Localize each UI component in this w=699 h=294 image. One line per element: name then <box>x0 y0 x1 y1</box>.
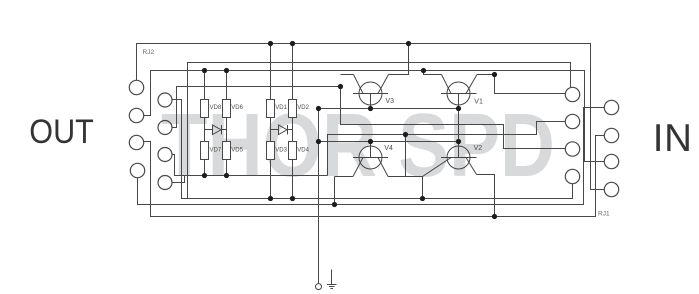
wire base bus lower <box>319 141 459 143</box>
svg-text:V1: V1 <box>474 99 483 106</box>
svg-text:THOR SPD: THOR SPD <box>161 96 555 196</box>
svg-text:VD6: VD6 <box>231 105 243 111</box>
wire bottom bus 1 <box>172 100 573 199</box>
wire bottom bus 2 <box>138 108 605 205</box>
RJ2 pin circle A1 <box>129 80 143 94</box>
ground <box>327 270 337 289</box>
transistor V1 <box>424 71 495 158</box>
wire RJ2 pin8 stub <box>172 176 185 183</box>
node H14 V2 <box>492 214 497 219</box>
svg-text:RJ2: RJ2 <box>143 49 155 56</box>
svg-text:OUT: OUT <box>29 113 94 151</box>
wire bus A <box>341 87 566 149</box>
node top VD1 <box>268 41 273 46</box>
resistor VD1 <box>267 100 275 118</box>
RJ1 pin circle A1 <box>565 87 579 101</box>
transistor V3 <box>341 44 409 109</box>
resistor VD4 <box>289 142 297 160</box>
node H9 gnd <box>316 139 321 144</box>
node H10 VD7 <box>202 173 207 178</box>
node top VD2 <box>290 41 295 46</box>
node busB <box>403 132 408 137</box>
node H12 V2 <box>420 196 425 201</box>
node H12 VD3 <box>268 196 273 201</box>
node H6 V1 base <box>456 106 461 111</box>
wire V1 to RJ1 pin1 <box>495 75 566 94</box>
node H9 V2 base <box>456 139 461 144</box>
svg-text:V4: V4 <box>384 145 393 152</box>
svg-text:RJ1: RJ1 <box>598 211 610 218</box>
wire net2: inner rect bus <box>188 63 571 199</box>
node H9 V4 base <box>368 139 373 144</box>
svg-text:VD4: VD4 <box>297 147 309 153</box>
resistor VD8 <box>201 100 209 118</box>
transistor V4 <box>335 135 423 205</box>
RJ2 pin circle B4 <box>158 176 172 190</box>
resistor VD7 <box>201 142 209 160</box>
resistor VD5 <box>223 142 231 160</box>
RJ2 pin circle B2 <box>158 121 172 135</box>
node H10 VD5 <box>224 173 229 178</box>
svg-text:VD2: VD2 <box>297 105 309 111</box>
node H3 VD6 <box>224 68 229 73</box>
wire bus B <box>328 122 566 176</box>
resistor VD6 <box>223 100 231 118</box>
svg-text:VD7: VD7 <box>210 147 222 153</box>
svg-text:IN: IN <box>653 117 693 160</box>
node H12 VD4 <box>290 196 295 201</box>
node H3 VD8 <box>202 68 207 73</box>
wire VD2 column <box>292 44 294 100</box>
wire net3 <box>144 71 605 162</box>
wire lower-left bus <box>172 155 328 176</box>
wire base bus upper <box>319 108 459 110</box>
wire VD8 column <box>204 71 206 100</box>
resistor VD3 <box>267 142 275 160</box>
node V1 right <box>492 72 497 77</box>
wire VD6 column <box>226 71 228 100</box>
node H3 V1 <box>421 68 426 73</box>
wire VD1 column <box>270 44 272 100</box>
node H4 V3 <box>338 84 343 89</box>
ground terminal <box>316 284 322 290</box>
node H6 gnd <box>316 106 321 111</box>
RJ1 pin circle A4 <box>565 169 579 183</box>
RJ2 pin circle A2 <box>129 108 143 122</box>
RJ1 pin circle B4 <box>604 182 618 196</box>
svg-text:VD3: VD3 <box>275 147 287 153</box>
node H13 V4 <box>332 202 337 207</box>
svg-text:V3: V3 <box>386 98 395 105</box>
RJ2 pin circle B3 <box>158 148 172 162</box>
svg-text:V2: V2 <box>474 145 483 152</box>
wire bottom bus 3 <box>144 136 605 217</box>
transistor V2 <box>423 146 495 217</box>
RJ1 pin circle A3 <box>565 142 579 156</box>
RJ2 pin circle B1 <box>158 93 172 107</box>
ground wire <box>318 109 320 284</box>
wire net1: RJ2 pin top to top bus to RJ1 <box>137 44 605 190</box>
RJ1 pin circle B1 <box>604 100 618 114</box>
svg-text:VD8: VD8 <box>210 105 222 111</box>
diode D-left <box>205 125 227 135</box>
resistor VD2 <box>289 100 297 118</box>
node top V3 <box>406 41 411 46</box>
svg-text:VD5: VD5 <box>231 147 243 153</box>
RJ2 pin circle A3 <box>129 135 143 149</box>
RJ1 pin circle B3 <box>604 154 618 168</box>
diode D-right <box>271 125 293 135</box>
wire net4 <box>172 87 341 128</box>
RJ1 jack circles <box>565 87 618 196</box>
RJ2 jack circles <box>129 80 172 189</box>
svg-text:VD1: VD1 <box>275 105 287 111</box>
RJ1 pin circle A2 <box>565 114 579 128</box>
RJ1 pin circle B2 <box>604 128 618 142</box>
node H6 V3 base <box>368 106 373 111</box>
RJ2 pin circle A4 <box>130 163 144 177</box>
